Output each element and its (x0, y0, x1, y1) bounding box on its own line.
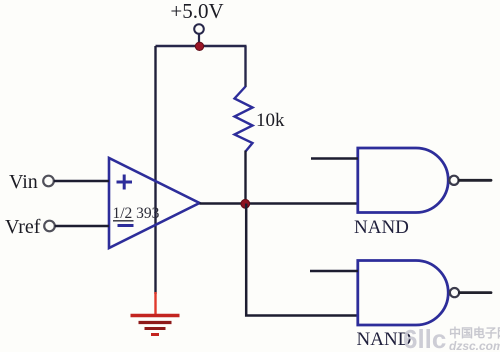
wire NAND2 input A stub (310, 270, 358, 273)
wire Vref to op-amp (55, 225, 109, 227)
ground bar 3 (145, 327, 166, 330)
svg-text:Vref: Vref (5, 216, 41, 238)
svg-text:+5.0V: +5.0V (170, 0, 223, 23)
op-amp minus input symbol (118, 224, 134, 227)
svg-text:中国电子网: 中国电子网 (449, 325, 500, 340)
resistor R1 10k zigzag (235, 87, 253, 152)
junction dot at output node (241, 199, 250, 208)
svg-text:dzsc.com: dzsc.com (449, 339, 500, 352)
ground red lead (154, 292, 156, 314)
power terminal circle (194, 24, 204, 34)
op-amp plus input symbol (117, 175, 133, 190)
svg-text:Vin: Vin (9, 171, 38, 193)
ground bar 4 (151, 333, 159, 336)
NAND gate U3 body (358, 261, 448, 326)
wire right vertical to resistor (244, 46, 246, 87)
Vin terminal circle (43, 176, 54, 187)
wire NAND1 input A stub (311, 157, 358, 160)
fraction underline (113, 220, 134, 222)
NAND2 inverter bubble (450, 288, 459, 297)
wire node down to NAND2 (246, 204, 358, 316)
svg-text:1/2 393: 1/2 393 (113, 205, 160, 222)
op-amp U1 (1/2 393) triangle (109, 158, 200, 248)
Vref terminal circle (44, 221, 55, 232)
watermark dzsc (403, 324, 500, 352)
svg-text:6llc: 6llc (403, 324, 446, 352)
ground bar 1 (131, 314, 180, 317)
junction dot at power rail (195, 42, 203, 50)
wire NAND2 output (460, 291, 492, 294)
wire left vertical (V+ to ground) (154, 46, 156, 294)
NAND1 inverter bubble (449, 176, 458, 185)
wire NAND1 output (459, 179, 491, 182)
wire op-amp output to NAND1 input B (200, 202, 359, 205)
wire resistor to output node (244, 151, 246, 204)
wire top rail (156, 45, 247, 47)
svg-text:NAND: NAND (354, 217, 409, 238)
wire terminal stub (198, 34, 200, 46)
NAND gate U2 body (358, 148, 448, 213)
ground bar 2 (139, 321, 172, 324)
wire Vin to op-amp (54, 180, 109, 182)
svg-text:10k: 10k (256, 110, 285, 131)
